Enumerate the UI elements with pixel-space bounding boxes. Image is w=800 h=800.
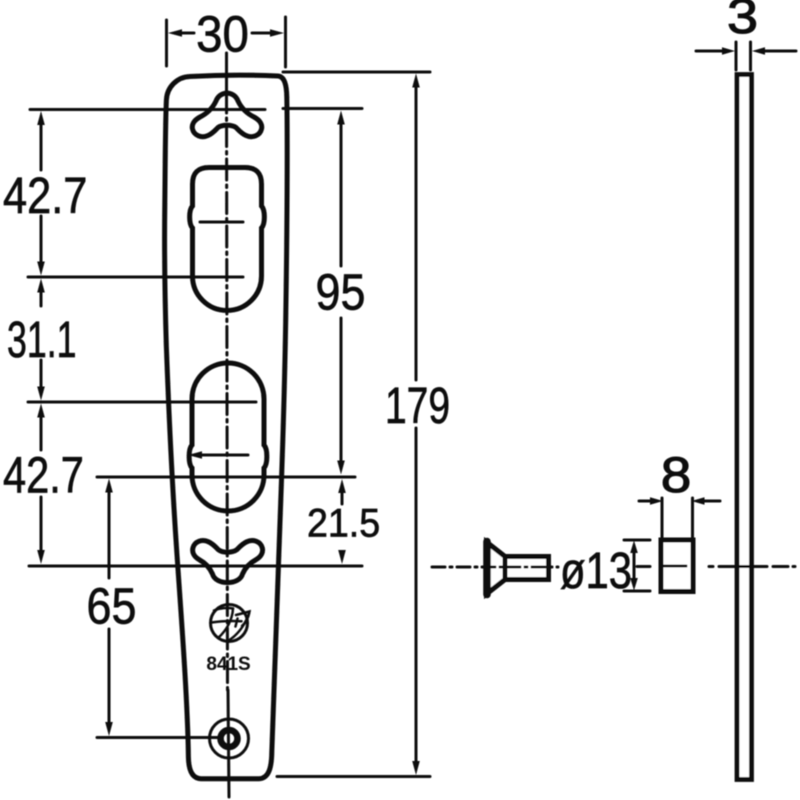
3 dimension left extension tick xyxy=(735,42,738,70)
spindle nut block (8 x 13 side view) xyxy=(661,540,693,592)
vertical centerline of front view, bottom solid segment xyxy=(228,690,229,797)
countersunk screw head (side view) xyxy=(487,542,506,594)
countersunk screw head flat face xyxy=(483,542,491,595)
30 dimension left extension tick xyxy=(165,20,168,66)
31.1 dimension line upper segment xyxy=(40,291,43,306)
65 dimension line upper segment xyxy=(108,491,111,578)
42.7 lower dimension line lower segment xyxy=(40,497,43,551)
svg-text:841S: 841S xyxy=(206,654,250,675)
42.7 upper dimension bottom arrowhead xyxy=(37,262,45,276)
42.7 lower dimension line upper segment xyxy=(40,416,43,450)
lower slot hole with side relief notches xyxy=(189,363,267,511)
o13 dimension top arrowhead xyxy=(630,541,638,554)
svg-text:42.7: 42.7 xyxy=(3,446,84,503)
extension line at lower trefoil hole centerline xyxy=(29,565,362,568)
30 dimension line left segment xyxy=(180,32,194,35)
extension line at top arc of lower slot hole xyxy=(28,401,256,404)
31.1 dimension line lower segment xyxy=(40,360,43,388)
horizontal centerline inside nut block xyxy=(661,565,686,568)
maker monogram stroke: short tick xyxy=(236,619,238,627)
8 dimension right extension tick xyxy=(691,498,694,538)
8 dimension line right segment xyxy=(704,500,720,503)
vertical centerline of front view, top solid segment xyxy=(225,53,228,92)
3 dimension line left segment xyxy=(696,50,723,53)
leader line of arrow inside lower slot hole xyxy=(201,454,248,457)
3 dimension left arrowhead xyxy=(722,47,735,55)
179 dimension top arrowhead xyxy=(412,74,420,88)
maker monogram stroke: left sweeping tail xyxy=(219,609,234,638)
95 dimension line lower segment xyxy=(340,318,343,462)
svg-text:179: 179 xyxy=(385,377,450,434)
8 dimension right arrowhead xyxy=(692,497,705,505)
65 dimension line lower segment xyxy=(108,629,111,723)
30 dimension line right segment xyxy=(252,32,272,35)
179 dimension line upper segment xyxy=(415,86,418,380)
31.1 dimension bottom arrowhead xyxy=(37,387,45,401)
plate outline (front view of 841S back plate) xyxy=(165,75,288,779)
svg-text:65: 65 xyxy=(87,579,137,635)
3 dimension right extension tick xyxy=(749,42,752,70)
upper slot hole with side relief notches xyxy=(190,168,265,311)
maker monogram stroke: right hook xyxy=(236,612,250,627)
95 dimension bottom arrowhead xyxy=(337,461,345,475)
21.5 dimension line segment xyxy=(341,492,344,504)
95 dimension line upper segment xyxy=(340,123,343,266)
upper trefoil cutout hole xyxy=(192,93,261,137)
65 dimension bottom arrowhead xyxy=(105,722,113,736)
extension line at bottom arc of lower slot hole xyxy=(97,476,355,479)
179 dimension bottom reference line xyxy=(277,775,430,778)
179 dimension bottom arrowhead xyxy=(412,761,420,775)
179 dimension top reference line xyxy=(283,71,430,74)
42.7 upper dimension top arrowhead xyxy=(37,111,45,125)
vertical centerline of front view, dash-dot segment xyxy=(227,92,228,690)
42.7 upper dimension line lower segment xyxy=(40,216,43,263)
horizontal centerline dash across side bar xyxy=(719,565,767,568)
horizontal centerline dash right xyxy=(773,565,788,568)
3 dimension line right segment xyxy=(765,50,796,53)
extension line at bottom arc of upper slot hole xyxy=(28,276,243,279)
svg-text:21.5: 21.5 xyxy=(307,501,380,545)
3 dimension right arrowhead xyxy=(752,47,765,55)
maker logo circle xyxy=(211,605,248,642)
horizontal centerline dot xyxy=(709,565,713,568)
svg-text:42.7: 42.7 xyxy=(3,168,87,225)
horizontal centerline dash before nut block xyxy=(637,565,650,568)
svg-text:95: 95 xyxy=(316,265,366,321)
svg-text:30: 30 xyxy=(196,6,249,63)
svg-text:ø13: ø13 xyxy=(560,542,632,599)
o13 dimension line xyxy=(633,551,636,580)
30 dimension right extension tick xyxy=(284,17,287,67)
21.5 dimension bottom arrowhead xyxy=(338,550,346,564)
bottom screw hole countersink ring xyxy=(221,730,238,747)
extension line at bottom screw hole centerline xyxy=(97,736,219,739)
o13 dimension top extension tick xyxy=(624,539,650,542)
svg-text:3: 3 xyxy=(727,0,758,44)
8 dimension left extension tick xyxy=(661,498,664,538)
screw shank xyxy=(505,557,549,580)
o13 dimension bottom arrowhead xyxy=(630,578,638,591)
65 dimension top arrowhead xyxy=(105,479,113,493)
arrowhead pointing to lower slot hole left notch xyxy=(188,451,202,459)
8 dimension left arrowhead xyxy=(650,497,663,505)
svg-text:8: 8 xyxy=(661,447,692,503)
svg-text:31.1: 31.1 xyxy=(7,312,76,369)
plate side view (3 mm thick bar) xyxy=(737,75,752,780)
horizontal centerline end dot xyxy=(793,565,795,568)
crosshair tick inside upper slot hole xyxy=(200,221,243,224)
horizontal reference line for 95 dimension (right part) xyxy=(283,107,362,110)
30 dimension right arrowhead xyxy=(270,29,284,37)
lower trefoil cutout hole (inverted) xyxy=(193,541,263,583)
o13 dimension bottom extension tick xyxy=(624,590,650,593)
horizontal centerline of side view, dash-dot left segment xyxy=(432,566,558,569)
31.1 dimension top arrowhead xyxy=(37,279,45,293)
42.7 lower dimension bottom arrowhead xyxy=(37,550,45,564)
30 dimension left arrowhead xyxy=(168,29,182,37)
179 dimension line lower segment xyxy=(415,428,418,762)
21.5 dimension top arrowhead xyxy=(338,479,346,493)
bottom screw hole outer circle xyxy=(210,719,249,758)
42.7 lower dimension top arrowhead xyxy=(37,404,45,418)
maker monogram stroke: middle bar xyxy=(212,621,242,623)
8 dimension line left segment xyxy=(639,500,651,503)
42.7 upper dimension line upper segment xyxy=(40,123,43,170)
maker monogram stroke: top bar xyxy=(214,608,233,610)
horizontal centerline of upper trefoil hole (left part) xyxy=(30,108,265,111)
maker monogram stroke: long diagonal xyxy=(230,614,250,641)
95 dimension top arrowhead xyxy=(337,111,345,125)
